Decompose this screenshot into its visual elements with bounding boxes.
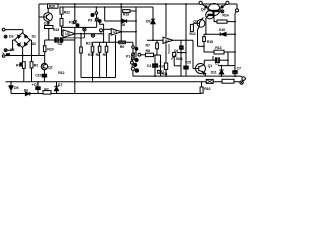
svg-text:D11: D11 bbox=[211, 71, 217, 75]
svg-text:R16: R16 bbox=[204, 87, 210, 91]
svg-text:R14: R14 bbox=[222, 13, 228, 17]
svg-text:C4: C4 bbox=[147, 64, 151, 68]
svg-text:R17: R17 bbox=[88, 53, 94, 57]
svg-text:D3: D3 bbox=[9, 35, 13, 39]
svg-text:R12: R12 bbox=[189, 32, 195, 36]
svg-text:R15: R15 bbox=[207, 40, 213, 44]
svg-text:R23: R23 bbox=[53, 28, 59, 32]
svg-text:P3: P3 bbox=[88, 19, 92, 23]
svg-text:R8: R8 bbox=[96, 53, 100, 57]
svg-text:D9: D9 bbox=[146, 20, 150, 24]
svg-text:D4: D4 bbox=[10, 48, 14, 52]
svg-text:U1: U1 bbox=[113, 30, 117, 34]
svg-text:R11: R11 bbox=[162, 72, 168, 76]
svg-text:Q4: Q4 bbox=[201, 7, 206, 11]
svg-text:P2: P2 bbox=[69, 21, 73, 25]
svg-text:C6: C6 bbox=[174, 49, 178, 53]
svg-text:Q1: Q1 bbox=[208, 64, 213, 68]
svg-text:R2: R2 bbox=[44, 87, 48, 91]
svg-text:U3: U3 bbox=[65, 32, 69, 36]
svg-text:Q10: Q10 bbox=[44, 22, 50, 26]
svg-text:R20: R20 bbox=[49, 4, 55, 8]
svg-text:R22: R22 bbox=[64, 11, 70, 15]
svg-text:R13: R13 bbox=[215, 46, 221, 50]
svg-text:R21: R21 bbox=[86, 41, 92, 45]
svg-text:R1: R1 bbox=[16, 64, 20, 68]
svg-text:C5: C5 bbox=[187, 61, 191, 65]
svg-text:C5: C5 bbox=[215, 61, 219, 65]
svg-text:R10: R10 bbox=[159, 64, 165, 68]
svg-text:R8: R8 bbox=[146, 49, 150, 53]
svg-text:Q2: Q2 bbox=[48, 66, 53, 70]
svg-text:U2: U2 bbox=[165, 39, 169, 43]
svg-text:P1: P1 bbox=[126, 54, 130, 58]
svg-text:R2: R2 bbox=[34, 63, 38, 67]
svg-text:C10: C10 bbox=[35, 74, 41, 78]
svg-text:R23: R23 bbox=[47, 47, 53, 51]
svg-text:D2: D2 bbox=[32, 42, 36, 46]
svg-text:D6: D6 bbox=[24, 89, 28, 93]
svg-text:R7: R7 bbox=[146, 43, 150, 47]
svg-text:D7: D7 bbox=[58, 83, 62, 87]
svg-text:+C9: +C9 bbox=[32, 83, 38, 87]
svg-text:D1: D1 bbox=[32, 35, 36, 39]
svg-text:R12: R12 bbox=[58, 71, 64, 75]
svg-text:D5: D5 bbox=[14, 86, 18, 90]
svg-text:R6: R6 bbox=[120, 45, 124, 49]
svg-text:D10: D10 bbox=[219, 28, 225, 32]
svg-text:R9: R9 bbox=[103, 53, 107, 57]
svg-text:BV1: BV1 bbox=[176, 57, 183, 61]
svg-text:C8: C8 bbox=[58, 42, 62, 46]
svg-text:D8: D8 bbox=[121, 23, 125, 27]
svg-text:C7: C7 bbox=[237, 66, 241, 70]
svg-text:R19: R19 bbox=[123, 13, 129, 17]
svg-text:Q2: Q2 bbox=[193, 19, 198, 23]
